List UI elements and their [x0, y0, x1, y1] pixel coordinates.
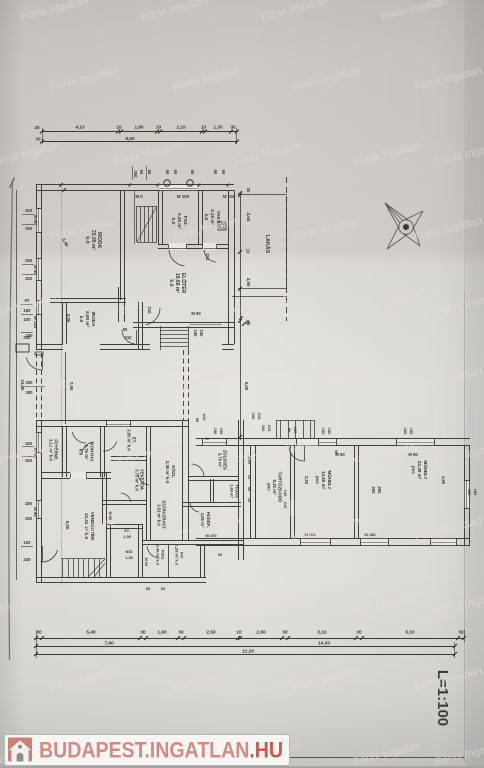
svg-text:100: 100 — [261, 425, 266, 432]
svg-text:KONYHA: KONYHA — [90, 442, 95, 462]
svg-text:60: 60 — [165, 170, 170, 175]
svg-text:240: 240 — [26, 333, 34, 338]
svg-text:250: 250 — [26, 380, 34, 385]
svg-text:90: 90 — [287, 428, 292, 433]
svg-text:300: 300 — [133, 171, 138, 179]
svg-text:8,32 m²: 8,32 m² — [272, 479, 277, 495]
svg-text:30: 30 — [34, 125, 40, 130]
svg-text:3,36 m² k.ö: 3,36 m² k.ö — [165, 461, 170, 484]
svg-text:200: 200 — [371, 487, 376, 495]
svg-text:260: 260 — [377, 487, 382, 495]
svg-text:2,60: 2,60 — [256, 630, 266, 636]
svg-text:1,80: 1,80 — [134, 125, 144, 130]
svg-text:24,48 m²: 24,48 m² — [417, 461, 422, 480]
svg-text:60: 60 — [221, 170, 226, 175]
svg-text:1,60: 1,60 — [157, 630, 167, 636]
svg-text:210: 210 — [205, 254, 210, 262]
svg-text:9,60: 9,60 — [125, 136, 135, 141]
svg-text:M 0: M 0 — [135, 194, 143, 199]
svg-text:10: 10 — [116, 125, 122, 130]
svg-text:ELŐTÉR: ELŐTÉR — [180, 273, 188, 294]
svg-text:ET.: ET. — [124, 528, 130, 533]
svg-text:19,50: 19,50 — [20, 380, 25, 392]
svg-text:M 90: M 90 — [33, 265, 38, 275]
svg-text:MŰHELY: MŰHELY — [327, 471, 333, 490]
svg-text:10: 10 — [247, 475, 251, 479]
svg-text:60: 60 — [213, 170, 218, 175]
svg-text:140: 140 — [283, 490, 288, 497]
svg-text:10: 10 — [156, 125, 162, 130]
svg-text:9,80 m²: 9,80 m² — [85, 311, 90, 327]
svg-text:100: 100 — [251, 413, 256, 420]
svg-text:60: 60 — [139, 170, 144, 175]
svg-text:k.ö: k.ö — [168, 279, 174, 286]
svg-text:150: 150 — [473, 489, 478, 496]
svg-text:5,10: 5,10 — [405, 630, 415, 636]
svg-text:30: 30 — [246, 188, 251, 193]
svg-text:150: 150 — [25, 208, 33, 213]
svg-text:10: 10 — [236, 630, 242, 636]
svg-text:1,08: 1,08 — [123, 534, 131, 539]
svg-text:150: 150 — [219, 428, 224, 435]
svg-text:10: 10 — [201, 125, 207, 130]
svg-text:30: 30 — [36, 630, 42, 636]
svg-text:10: 10 — [246, 249, 251, 254]
svg-text:BUDAPEST.INGATLAN.HU: BUDAPEST.INGATLAN.HU — [39, 738, 283, 763]
svg-text:2,60: 2,60 — [246, 213, 251, 222]
svg-text:k.ö: k.ö — [78, 449, 83, 456]
svg-text:ET.: ET. — [132, 437, 137, 443]
svg-text:240: 240 — [23, 557, 31, 562]
svg-text:30: 30 — [230, 125, 236, 130]
svg-text:M 90: M 90 — [191, 311, 201, 316]
svg-text:NŐI: NŐI — [126, 549, 133, 554]
svg-text:14,88 m²: 14,88 m² — [321, 471, 326, 490]
svg-text:90: 90 — [123, 327, 128, 332]
svg-text:3,20: 3,20 — [304, 476, 309, 485]
svg-text:k.ö: k.ö — [204, 214, 209, 221]
svg-text:KÖZL.: KÖZL. — [171, 465, 176, 478]
svg-text:2,10: 2,10 — [176, 125, 186, 130]
svg-text:3,75 m² k.ö: 3,75 m² k.ö — [134, 469, 139, 491]
svg-text:150: 150 — [409, 428, 414, 435]
svg-text:2,50: 2,50 — [206, 630, 216, 636]
svg-text:FSZ.: FSZ. — [183, 216, 188, 226]
svg-text:90: 90 — [247, 487, 251, 491]
svg-text:3,10: 3,10 — [317, 630, 327, 636]
svg-text:60: 60 — [146, 586, 151, 591]
svg-text:4,10: 4,10 — [75, 125, 85, 130]
svg-text:60: 60 — [161, 586, 166, 591]
svg-text:60: 60 — [173, 170, 178, 175]
svg-text:IRODA: IRODA — [96, 232, 102, 249]
svg-text:150: 150 — [25, 226, 33, 231]
svg-text:150: 150 — [321, 428, 326, 435]
svg-text:30: 30 — [178, 630, 184, 636]
svg-text:pvc: pvc — [315, 476, 320, 484]
svg-text:180: 180 — [25, 501, 33, 506]
svg-text:150: 150 — [199, 330, 204, 338]
svg-text:M 60: M 60 — [144, 558, 149, 567]
svg-text:210: 210 — [257, 413, 262, 420]
svg-text:150: 150 — [25, 258, 33, 263]
svg-text:160: 160 — [403, 428, 408, 435]
svg-text:150: 150 — [25, 516, 33, 521]
svg-text:M 90: M 90 — [33, 507, 38, 517]
svg-text:100: 100 — [23, 540, 31, 545]
svg-text:100: 100 — [23, 317, 31, 322]
svg-text:5,76 m²: 5,76 m² — [84, 444, 89, 460]
svg-text:5,40: 5,40 — [86, 630, 96, 636]
svg-text:3,52 m² k.ö: 3,52 m² k.ö — [156, 504, 161, 526]
svg-text:M 100: M 100 — [223, 194, 236, 199]
svg-text:160: 160 — [467, 489, 472, 496]
svg-text:M 180: M 180 — [364, 532, 376, 537]
svg-text:5,46 m²: 5,46 m² — [177, 213, 182, 229]
svg-text:210: 210 — [202, 414, 207, 421]
svg-text:30: 30 — [458, 630, 464, 636]
svg-text:ZÖLDSÉG: ZÖLDSÉG — [223, 450, 228, 470]
svg-text:2,00: 2,00 — [66, 314, 71, 323]
svg-text:TARTÓZKODÓ: TARTÓZKODÓ — [278, 472, 283, 503]
svg-text:MŰHELY: MŰHELY — [423, 461, 429, 480]
svg-text:210: 210 — [267, 425, 272, 432]
svg-text:210: 210 — [283, 502, 288, 509]
svg-text:150: 150 — [193, 330, 198, 338]
svg-text:7,90: 7,90 — [104, 641, 114, 647]
svg-text:30: 30 — [140, 630, 146, 636]
svg-text:k.ö: k.ö — [84, 236, 90, 243]
svg-text:150: 150 — [327, 428, 332, 435]
svg-text:60: 60 — [218, 552, 223, 557]
svg-text:210: 210 — [125, 335, 133, 340]
svg-text:pvc: pvc — [411, 466, 416, 474]
svg-text:M 110: M 110 — [33, 316, 38, 328]
svg-text:90: 90 — [195, 418, 200, 423]
svg-text:60: 60 — [190, 170, 195, 175]
svg-text:120: 120 — [293, 427, 298, 434]
svg-text:30: 30 — [35, 137, 41, 142]
svg-text:150: 150 — [25, 276, 33, 281]
svg-text:30: 30 — [282, 630, 288, 636]
svg-text:5,60: 5,60 — [244, 382, 249, 391]
svg-text:k.ö: k.ö — [79, 316, 84, 323]
svg-text:150: 150 — [25, 441, 33, 446]
svg-text:FEKETEM.: FEKETEM. — [140, 469, 145, 490]
svg-text:3,90: 3,90 — [246, 278, 251, 287]
svg-text:3,75 m²: 3,75 m² — [217, 453, 222, 468]
svg-text:12,20: 12,20 — [242, 649, 254, 655]
svg-text:1,30: 1,30 — [213, 125, 223, 130]
svg-text:150: 150 — [213, 428, 218, 435]
svg-text:4,80: 4,80 — [441, 476, 446, 485]
svg-text:2,48 m² k.ö: 2,48 m² k.ö — [155, 545, 160, 566]
svg-text:pvc: pvc — [266, 483, 271, 491]
svg-text:300: 300 — [26, 390, 34, 395]
svg-text:30: 30 — [246, 321, 251, 326]
svg-text:14,30: 14,30 — [318, 641, 330, 647]
svg-text:M 100: M 100 — [177, 194, 190, 199]
svg-text:3,85 m² k.ö: 3,85 m² k.ö — [126, 429, 131, 451]
svg-text:1,68 m²: 1,68 m² — [229, 484, 234, 498]
svg-text:M 90: M 90 — [33, 215, 38, 225]
svg-text:1,28 m² k.ö: 1,28 m² k.ö — [174, 545, 179, 566]
svg-text:60: 60 — [147, 170, 152, 175]
svg-text:10: 10 — [247, 498, 251, 502]
svg-text:SZÁRAZRAKT.: SZÁRAZRAKT. — [162, 500, 167, 529]
svg-text:k.ö: k.ö — [171, 218, 176, 225]
svg-text:30: 30 — [356, 630, 362, 636]
svg-text:1,00: 1,00 — [125, 555, 133, 560]
svg-text:IRODA: IRODA — [91, 312, 96, 327]
svg-text:LAKÁS: LAKÁS — [264, 235, 271, 254]
